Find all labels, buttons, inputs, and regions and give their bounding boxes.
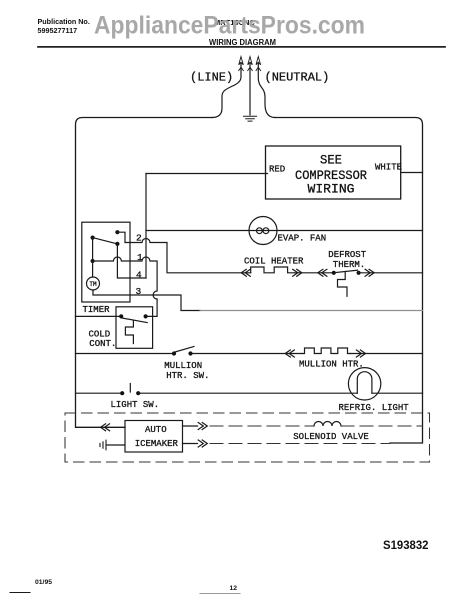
compressor box U1: [266, 146, 401, 199]
svg-text:WIRING: WIRING: [308, 183, 355, 197]
mullion heater chevron left: [285, 350, 294, 357]
mullion heater chevron right: [356, 350, 365, 357]
icemaker output bottom chevron: [198, 440, 207, 447]
dashed wire solenoid to neutral: [341, 425, 423, 427]
dashed return wire: [210, 443, 390, 445]
dashed wire to solenoid: [210, 425, 314, 427]
main box left/top outline: [76, 118, 213, 428]
timer terminal 4 internal wire: [117, 244, 146, 278]
timer contact dot (terminal 2 side): [115, 230, 119, 234]
footer left rule: [10, 592, 30, 594]
cold control sensor: [125, 321, 133, 344]
wire defrost therm to neutral: [359, 272, 423, 274]
light switch dots: [120, 391, 124, 395]
ground symbol: [244, 116, 257, 121]
mullion heater element: [302, 348, 350, 354]
defrost therm chevron right: [365, 269, 374, 276]
evap fan coil loops: [257, 228, 263, 234]
refrig light bulb: [348, 368, 380, 400]
main box right/top outline: [275, 118, 423, 444]
svg-text:(NEUTRAL): (NEUTRAL): [265, 71, 330, 85]
wire mullion switch to heater: [191, 353, 302, 355]
timer terminal 1 wire with hops to cold control: [93, 257, 158, 316]
wire mullion heater to neutral: [350, 353, 422, 355]
header publication number: [38, 17, 90, 35]
wire red to compressor: [146, 173, 268, 175]
refrig light filament: [357, 372, 372, 394]
coil heater element: [251, 267, 295, 273]
footer center rule: [200, 593, 240, 595]
mullion switch blade: [175, 347, 194, 353]
svg-text:COLD: COLD: [89, 329, 111, 339]
wire line feed to cold control: [76, 315, 122, 317]
defrost therm blade: [335, 270, 358, 272]
svg-text:MULLION: MULLION: [164, 361, 202, 371]
wire compressor/evap feed vertical: [145, 174, 147, 279]
icemaker dashed enclosure: [65, 413, 430, 462]
svg-text:S193832: S193832: [383, 538, 429, 552]
light switch plunger: [129, 384, 131, 393]
wire evap fan line: [146, 230, 423, 232]
line prong arrow: [239, 57, 244, 71]
svg-text:EVAP. FAN: EVAP. FAN: [278, 234, 327, 244]
coil heater chevron left: [241, 269, 250, 276]
svg-text:1: 1: [137, 252, 143, 263]
line prong lead wire: [212, 64, 241, 118]
wire light switch line: [76, 392, 123, 394]
svg-text:SEE: SEE: [320, 154, 342, 168]
svg-text:TM: TM: [89, 281, 97, 288]
timer terminal 2 wire with hop to coil heater feed: [117, 232, 250, 273]
svg-text:AppliancePartsPros.com: AppliancePartsPros.com: [94, 12, 365, 40]
defrost therm sensor: [338, 272, 348, 297]
svg-text:REFRIG. LIGHT: REFRIG. LIGHT: [339, 403, 410, 413]
svg-text:Publication No.: Publication No.: [38, 17, 90, 26]
icemaker ground symbol: [100, 440, 106, 450]
svg-text:COIL HEATER: COIL HEATER: [244, 256, 304, 266]
svg-text:LIGHT SW.: LIGHT SW.: [111, 400, 160, 410]
svg-text:SOLENOID VALVE: SOLENOID VALVE: [293, 432, 369, 442]
svg-text:HTR. SW.: HTR. SW.: [166, 371, 209, 381]
svg-text:01/95: 01/95: [35, 579, 52, 586]
svg-text:WHITE: WHITE: [375, 163, 402, 173]
icemaker output bottom wire: [183, 443, 198, 445]
svg-text:THERM.: THERM.: [333, 260, 365, 270]
svg-text:4: 4: [136, 270, 142, 281]
ground prong wire: [249, 64, 251, 115]
wire lamp to neutral: [372, 392, 423, 394]
icemaker ground wire: [107, 444, 126, 446]
cold control blade: [122, 318, 147, 323]
neutral prong lead wire: [258, 64, 275, 118]
title underline: [38, 46, 445, 48]
svg-text:COMPRESSOR: COMPRESSOR: [295, 169, 367, 183]
solenoid valve coil L1: [314, 422, 341, 427]
auto icemaker box: [125, 421, 183, 453]
timer switch blade: [93, 238, 118, 244]
defrost therm contact dots: [332, 271, 336, 275]
timer motor lead: [92, 238, 94, 277]
svg-text:12: 12: [230, 585, 238, 592]
svg-text:DEFROST: DEFROST: [328, 250, 366, 260]
svg-text:5995277117: 5995277117: [38, 26, 78, 35]
wire mullion/light line from line side: [76, 353, 175, 355]
wire light switch to lamp: [138, 392, 357, 394]
ground prong arrow: [248, 57, 253, 71]
cold control contact dots: [119, 314, 123, 318]
timer internal junction dot: [91, 259, 95, 263]
icemaker output top chevron: [198, 423, 207, 430]
timer contact dot (terminal 4 side): [115, 242, 119, 246]
coil heater chevron right: [293, 269, 302, 276]
evap fan motor M1: [249, 217, 277, 245]
svg-text:ICEMAKER: ICEMAKER: [135, 439, 179, 449]
defrost therm chevron left: [318, 269, 327, 276]
svg-text:MULLION HTR.: MULLION HTR.: [299, 360, 364, 370]
svg-text:AUTO: AUTO: [145, 425, 167, 435]
wire coil heater to defrost therm: [294, 272, 334, 274]
timer terminal 3 wire to neutral: [93, 290, 200, 311]
icemaker feed chevron: [101, 424, 110, 431]
neutral prong arrow: [256, 57, 261, 71]
svg-text:RED: RED: [269, 165, 285, 175]
mullion switch dots: [172, 351, 176, 355]
wire white from compressor: [401, 172, 423, 174]
wire timer terminal 3 to neutral (faded): [200, 310, 423, 312]
timer pivot contact dot: [91, 236, 95, 240]
svg-text:TIMER: TIMER: [83, 305, 111, 315]
icemaker output top wire: [183, 425, 198, 427]
svg-text:WIRING DIAGRAM: WIRING DIAGRAM: [209, 38, 276, 47]
cold control box: [116, 307, 153, 349]
timer box: [82, 222, 130, 302]
svg-text:(LINE): (LINE): [190, 71, 233, 85]
svg-text:2: 2: [136, 233, 142, 244]
svg-text:CONT.: CONT.: [89, 339, 116, 349]
svg-text:3: 3: [136, 286, 142, 297]
timer motor TM: [87, 277, 100, 290]
